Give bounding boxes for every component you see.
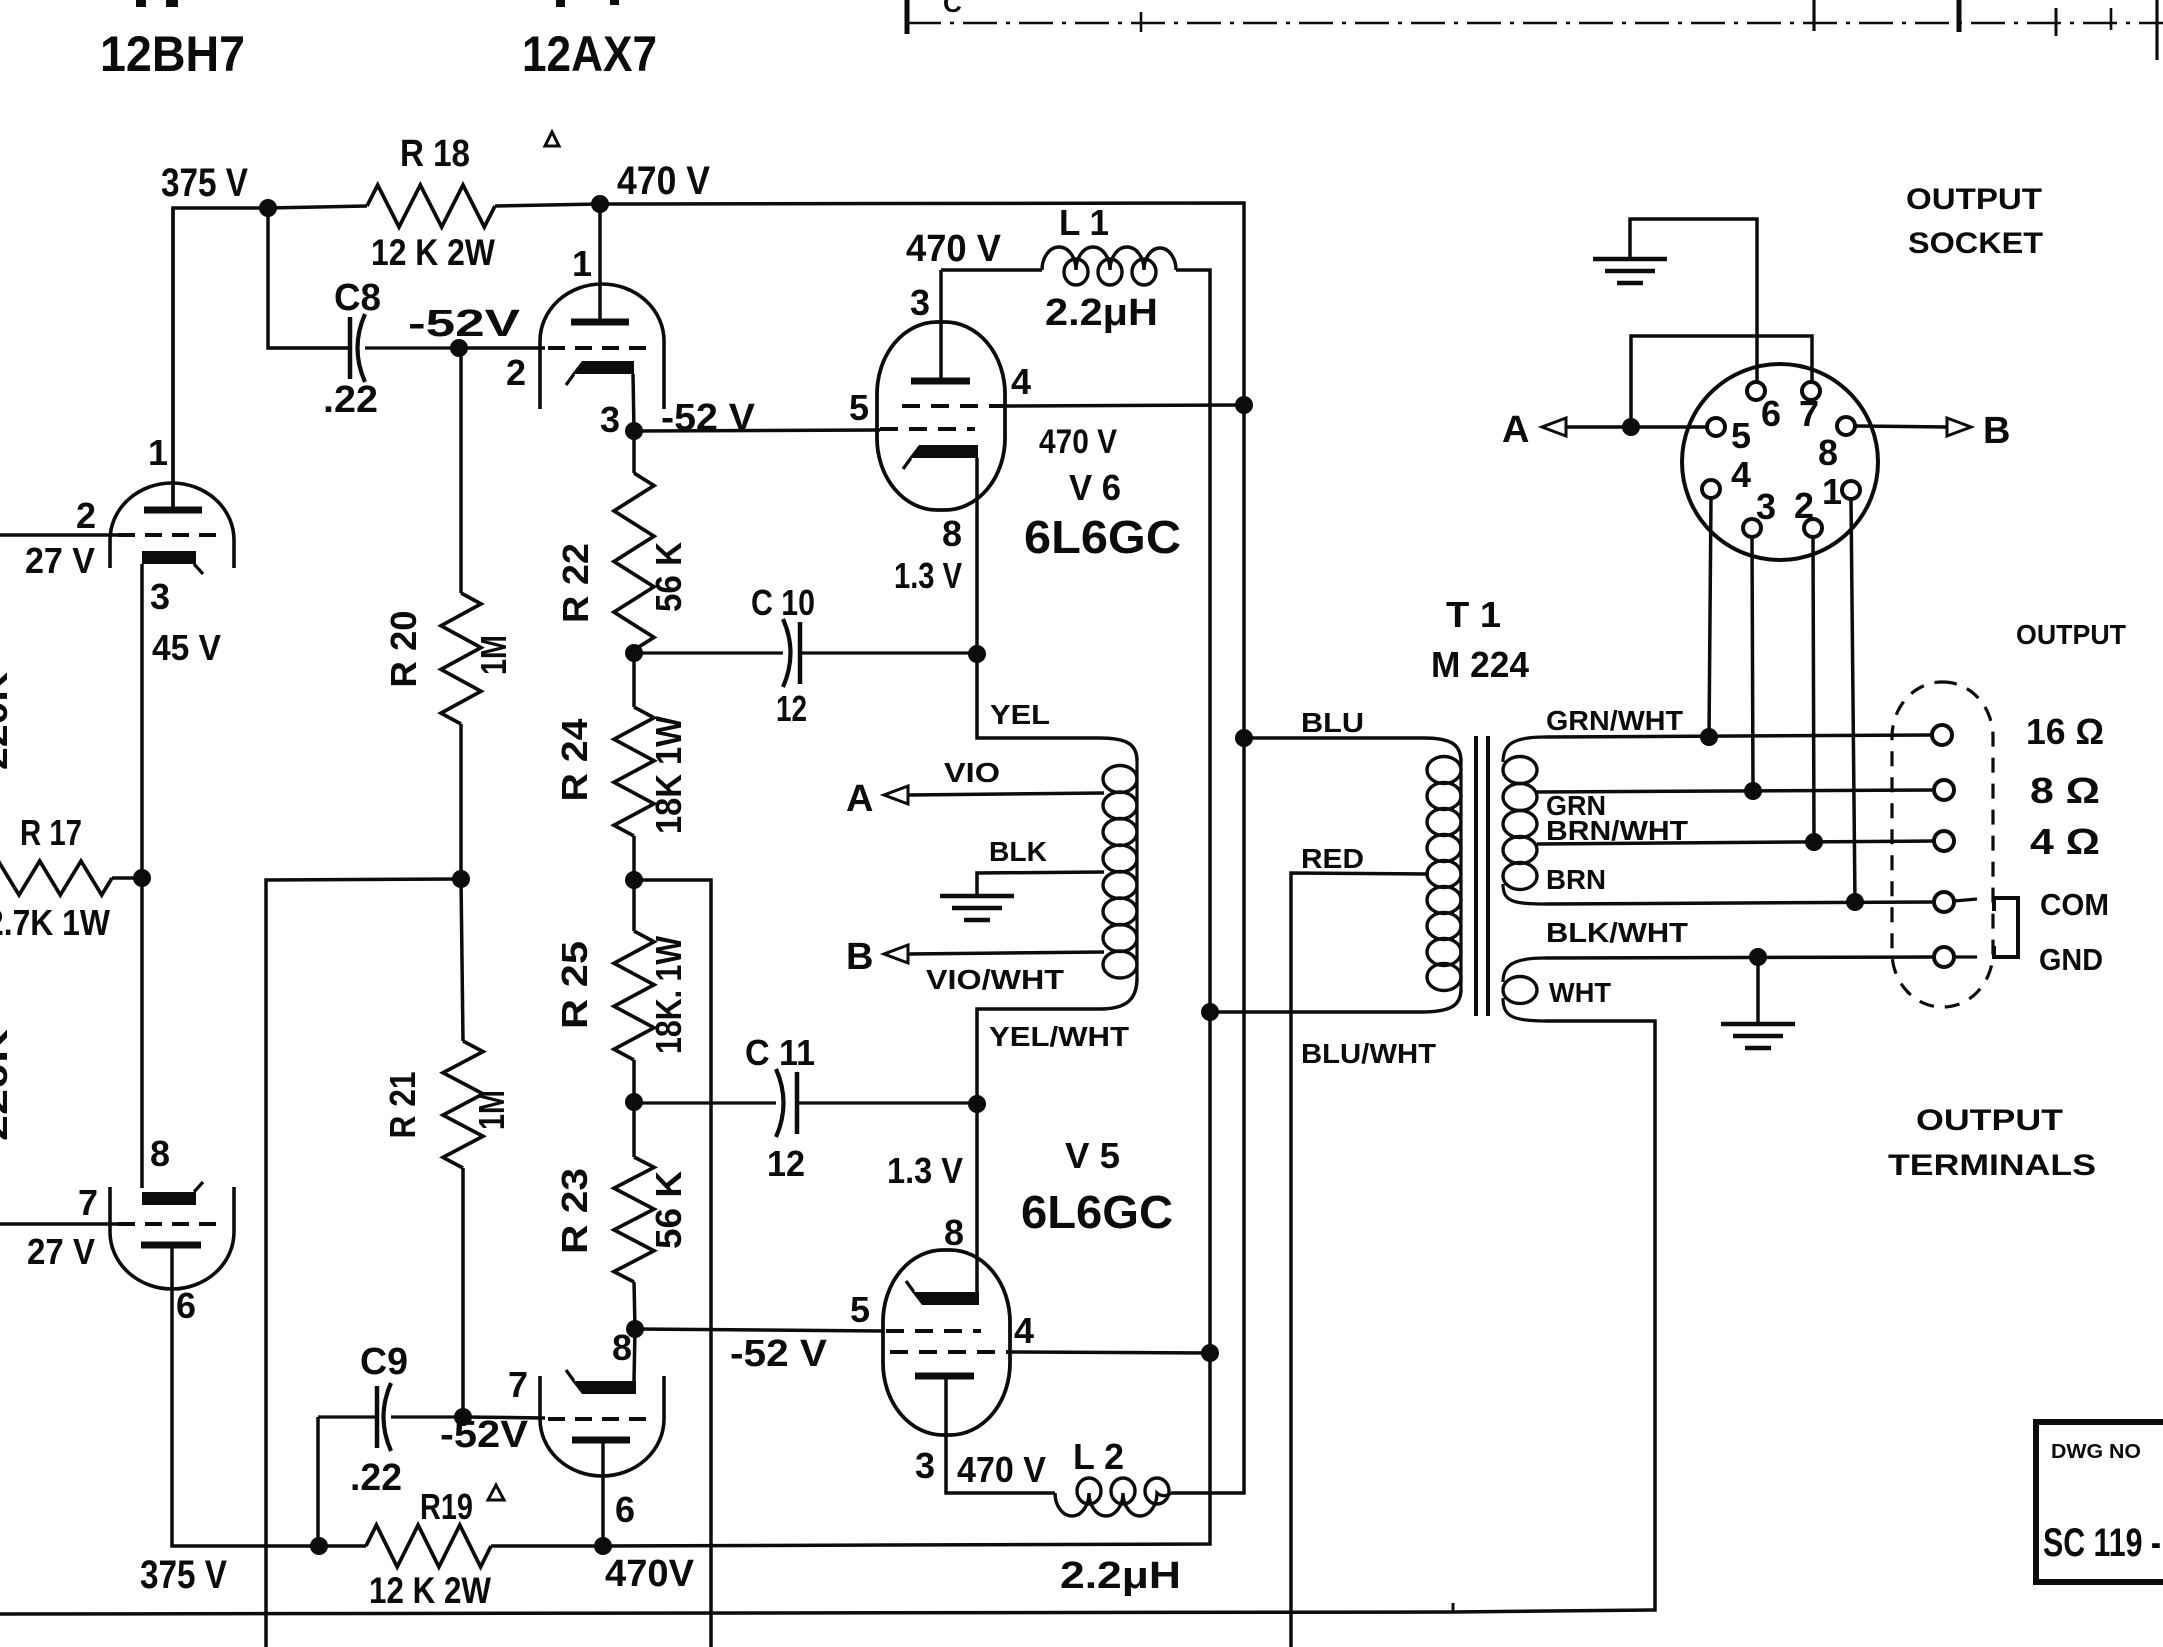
svg-text:OUTPUT: OUTPUT xyxy=(2016,619,2126,650)
wire C9 left corner xyxy=(316,1417,320,1546)
svg-text:R 21: R 21 xyxy=(382,1072,423,1139)
svg-text:3: 3 xyxy=(150,576,170,617)
svg-text:C8: C8 xyxy=(334,277,381,319)
svg-text:.22: .22 xyxy=(323,379,378,421)
node R20 R21 junction xyxy=(452,870,470,888)
svg-text:27 V: 27 V xyxy=(25,540,95,581)
svg-text:2.7K 1W: 2.7K 1W xyxy=(0,902,110,943)
svg-text:8: 8 xyxy=(612,1327,632,1368)
svg-text:R19: R19 xyxy=(420,1486,473,1527)
svg-text:8: 8 xyxy=(1818,432,1838,473)
node BLK/WHT ground junction xyxy=(1749,948,1767,966)
svg-text:5: 5 xyxy=(850,1289,870,1330)
svg-text:220K: 220K xyxy=(0,672,15,770)
svg-text:3: 3 xyxy=(915,1445,935,1486)
svg-text:VIO: VIO xyxy=(944,757,1000,788)
wire rail tick xyxy=(1452,1603,1455,1613)
wire R20 to -52V junction xyxy=(459,724,463,879)
svg-text:RED: RED xyxy=(1301,843,1364,874)
svg-text:BRN: BRN xyxy=(1546,864,1606,895)
svg-text:2.2μH: 2.2μH xyxy=(1060,1555,1181,1597)
svg-text:A: A xyxy=(1502,409,1530,451)
svg-text:OUTPUT: OUTPUT xyxy=(1916,1104,2063,1137)
terminal GND stub xyxy=(1954,955,1977,958)
transformer T1 core xyxy=(1474,736,1478,1016)
wire V6 screen to 470V riser xyxy=(1003,405,1244,406)
svg-text:5: 5 xyxy=(849,387,869,428)
svg-text:470V: 470V xyxy=(605,1553,695,1595)
node 470V junction xyxy=(591,195,609,213)
node R19 right junction xyxy=(594,1537,612,1555)
svg-text:12: 12 xyxy=(767,1143,805,1184)
wire VIO with arrow A xyxy=(908,793,1104,795)
tube V5 cathode xyxy=(912,1292,979,1305)
wire BRN to COM xyxy=(1545,902,1934,904)
svg-text:C: C xyxy=(943,0,963,18)
tube V5 plate lead xyxy=(946,1377,1055,1493)
tube V6 screen grid (dashed) xyxy=(902,404,1003,408)
wire -52V junction to right descent xyxy=(634,880,711,1647)
title block vertical rule right xyxy=(1957,0,1962,32)
node COM junction xyxy=(1846,893,1864,911)
svg-text:12AX7: 12AX7 xyxy=(522,26,657,82)
wire R24 to -52V junction xyxy=(632,836,636,880)
socket pin 3 xyxy=(1743,519,1761,537)
resistor R20 xyxy=(441,593,481,724)
title block edge tick 3 xyxy=(2110,8,2113,30)
wire -52V feed corner xyxy=(266,879,461,1647)
svg-text:R 17: R 17 xyxy=(20,812,82,853)
svg-text:16 Ω: 16 Ω xyxy=(2026,711,2104,752)
node V6 screen junction xyxy=(1235,396,1253,414)
title block edge tick 2 xyxy=(2055,8,2058,36)
svg-text:3: 3 xyxy=(600,399,620,440)
transformer T1 secondary upper xyxy=(1503,737,1545,762)
capacitor C8 xyxy=(348,317,353,379)
svg-text:8: 8 xyxy=(150,1133,170,1174)
wire R23 to 12AX7b junction xyxy=(634,1282,635,1329)
tube V5 cathode lead xyxy=(975,1104,979,1292)
svg-text:BLU/WHT: BLU/WHT xyxy=(1301,1038,1436,1069)
capacitor C9 xyxy=(375,1386,380,1448)
wire V6 plate to L1 xyxy=(941,268,1042,272)
tube 12BH7a plate xyxy=(144,507,202,514)
svg-text:C 11: C 11 xyxy=(745,1032,815,1073)
svg-text:4: 4 xyxy=(1011,361,1031,402)
node C11 junction left xyxy=(625,1093,643,1111)
terminal COM-GND bracket xyxy=(1994,898,2018,957)
tube 12AX7b envelope xyxy=(540,1376,664,1476)
svg-text:R 25: R 25 xyxy=(554,941,595,1029)
wire R19 to 470V junction xyxy=(491,1544,603,1548)
svg-text:18K 1W: 18K 1W xyxy=(648,716,689,834)
svg-text:-52V: -52V xyxy=(440,1414,529,1456)
socket circle xyxy=(1682,364,1878,560)
svg-text:TERMINALS: TERMINALS xyxy=(1888,1149,2096,1182)
svg-text:BRN/WHT: BRN/WHT xyxy=(1546,815,1688,846)
node 12AX7a cathode junction xyxy=(625,422,643,440)
wire 375V bottom xyxy=(175,1544,319,1548)
node C8 grid junction xyxy=(450,339,468,357)
svg-text:.22: .22 xyxy=(350,1457,402,1499)
tube 12AX7a plate xyxy=(571,319,629,326)
tube V5 envelope xyxy=(883,1250,1010,1435)
ground at BLK/WHT xyxy=(1721,1022,1795,1027)
wire 12BH7b grid from left edge xyxy=(0,1222,118,1226)
svg-text:470 V: 470 V xyxy=(1039,423,1117,461)
svg-text:6: 6 xyxy=(176,1285,196,1326)
svg-text:C9: C9 xyxy=(360,1341,408,1383)
socket pin 8 xyxy=(1837,417,1855,435)
wire GRN to 8 ohm xyxy=(1537,790,1934,792)
svg-text:BLK: BLK xyxy=(989,836,1047,867)
svg-text:R 18: R 18 xyxy=(400,133,470,175)
wire junction to R19 xyxy=(319,1544,366,1548)
wire C8 junction to 12AX7 grid xyxy=(459,346,545,350)
node 4 ohm junction xyxy=(1805,833,1823,851)
tube 12BH7b envelope xyxy=(110,1187,234,1289)
terminal 4 ohm xyxy=(1934,831,1954,851)
wire 470V bottom rail to V5 screen riser xyxy=(603,270,1210,1546)
svg-text:1M: 1M xyxy=(471,1090,512,1130)
socket pin 5 xyxy=(1707,418,1725,436)
wire BRN/WHT to 4 ohm xyxy=(1537,841,1934,844)
node C10 junction left xyxy=(625,644,643,662)
wire R21 to C9 junction xyxy=(461,1168,465,1417)
svg-text:1M: 1M xyxy=(473,635,514,675)
wire BLU to primary xyxy=(1244,738,1461,762)
tube 12BH7b grid (dashed) xyxy=(118,1222,222,1226)
resistor R19 xyxy=(366,1525,491,1567)
tube V6 plate lead xyxy=(939,270,943,378)
wire socket pin4 down xyxy=(1709,498,1711,737)
svg-text:BLU: BLU xyxy=(1301,707,1364,738)
node 16 ohm junction xyxy=(1700,728,1718,746)
wire BLK to ground xyxy=(977,872,1104,896)
tube V6 plate xyxy=(911,378,970,385)
tube 12AX7a cathode lead xyxy=(633,374,634,431)
svg-text:2: 2 xyxy=(1794,485,1814,526)
label R18 triangle xyxy=(545,132,559,146)
socket ground wire xyxy=(1630,219,1757,382)
svg-text:4: 4 xyxy=(1731,454,1751,495)
node A junction xyxy=(1622,418,1640,436)
svg-text:27 V: 27 V xyxy=(27,1231,95,1272)
svg-text:V 5: V 5 xyxy=(1065,1135,1120,1176)
wire junction to R25 xyxy=(632,880,636,931)
svg-text:375 V: 375 V xyxy=(161,161,248,205)
svg-text:18K. 1W: 18K. 1W xyxy=(648,936,689,1054)
wire C9 junction to 12AX7b grid xyxy=(463,1417,545,1418)
wire junction down to C8 xyxy=(268,208,350,348)
tube 12BH7a grid (dashed) xyxy=(118,533,222,537)
svg-text:YEL: YEL xyxy=(990,699,1050,730)
label R19 triangle xyxy=(488,1485,504,1500)
node V6 cathode C10 junction xyxy=(968,645,986,663)
wire R17 to cathode line xyxy=(112,876,142,880)
node 375V junction xyxy=(259,199,277,217)
tube V6 cathode lead xyxy=(975,458,979,654)
tube 12BH7b cathode xyxy=(142,1192,196,1205)
wire YEL/WHT from winding xyxy=(977,978,1137,1104)
tube 12BH7a cathode lead xyxy=(140,564,144,877)
wire 470V rail to right descent xyxy=(600,203,1244,1493)
node V5 screen junction xyxy=(1201,1344,1219,1362)
svg-text:1: 1 xyxy=(1822,471,1842,512)
svg-text:T 1: T 1 xyxy=(1446,594,1501,635)
svg-text:B: B xyxy=(846,936,874,978)
tube 12BH7a plate lead xyxy=(171,208,175,509)
resistor R21 xyxy=(443,1041,483,1168)
svg-text:8: 8 xyxy=(944,1212,964,1253)
title block border (dash-dot divider) xyxy=(907,22,2163,25)
capacitor C10 xyxy=(798,622,803,684)
svg-text:C 10: C 10 xyxy=(751,582,815,623)
wire V5 screen to riser xyxy=(1009,1352,1210,1353)
svg-text:WHT: WHT xyxy=(1549,977,1611,1008)
svg-text:3: 3 xyxy=(1756,486,1776,527)
wire BLK/WHT to GND xyxy=(1545,957,1934,958)
wire 375V corner to junction xyxy=(173,208,268,508)
wire BLU/WHT to primary xyxy=(1210,989,1461,1012)
wire BLK/WHT ground stem xyxy=(1756,957,1760,1024)
socket pin7 bracket wire xyxy=(1631,336,1812,427)
svg-text:V 6: V 6 xyxy=(1069,467,1121,508)
svg-text:B: B xyxy=(1983,410,2011,452)
tube 12BH7b plate lead xyxy=(172,1245,175,1546)
svg-text:6L6GC: 6L6GC xyxy=(1024,511,1181,563)
svg-text:12BH7: 12BH7 xyxy=(100,26,245,82)
capacitor C11 xyxy=(795,1072,800,1134)
svg-text:6: 6 xyxy=(615,1489,635,1530)
wire socket pin1 down xyxy=(1851,499,1855,902)
svg-text:1: 1 xyxy=(148,432,168,473)
terminal 16 ohm xyxy=(1932,725,1952,745)
node V5 cathode C11 junction xyxy=(968,1095,986,1113)
tube 12AX7b grid (dashed) xyxy=(548,1417,652,1421)
tube V6 cathode xyxy=(909,445,978,458)
terminal board outline (dashed) xyxy=(1892,682,1993,1007)
svg-text:56 K: 56 K xyxy=(648,1171,689,1249)
node R24 R25 junction xyxy=(625,871,643,889)
tube 12BH7a cathode xyxy=(142,551,196,564)
svg-text:YEL/WHT: YEL/WHT xyxy=(989,1021,1129,1052)
resistor R18 xyxy=(367,185,495,227)
socket pin 2 xyxy=(1804,519,1822,537)
node R19 left junction xyxy=(310,1537,328,1555)
tube 12BH7b plate xyxy=(141,1242,201,1249)
resistor R24 xyxy=(614,707,654,836)
wire C8 junction down to R20 xyxy=(459,348,463,593)
svg-text:7: 7 xyxy=(1799,393,1819,434)
tube 12AX7a envelope xyxy=(540,284,664,409)
tube 12AX7b cathode xyxy=(572,1381,636,1394)
svg-text:GND: GND xyxy=(2039,942,2103,977)
svg-text:1.3 V: 1.3 V xyxy=(894,555,962,596)
svg-text:12 K 2W: 12 K 2W xyxy=(371,232,495,273)
title block vertical rule mid xyxy=(1812,0,1815,31)
wire WHT return xyxy=(0,1021,1655,1614)
ground at socket xyxy=(1593,257,1667,262)
wire socket pin3 down xyxy=(1752,537,1753,791)
svg-text:3: 3 xyxy=(910,282,930,323)
svg-text:2.2μH: 2.2μH xyxy=(1045,292,1158,334)
wire B with arrow xyxy=(1855,426,1947,427)
svg-text:R 24: R 24 xyxy=(554,719,595,802)
tube 12AX7a plate lead xyxy=(598,204,602,321)
node cathode R17 junction xyxy=(133,869,151,887)
svg-text:1.3 V: 1.3 V xyxy=(887,1150,963,1191)
svg-text:470 V: 470 V xyxy=(617,159,710,203)
svg-text:COM: COM xyxy=(2040,887,2109,922)
wire A with arrow xyxy=(1566,425,1631,429)
winding T1 tertiary xyxy=(1103,766,1137,793)
wire R18 to 470V junction xyxy=(495,204,600,206)
svg-text:12: 12 xyxy=(776,688,807,729)
svg-text:OUTPUT: OUTPUT xyxy=(1906,183,2042,216)
svg-text:L 1: L 1 xyxy=(1059,202,1109,243)
wire GRN/WHT to 16 ohm xyxy=(1545,735,1932,737)
svg-text:-52V: -52V xyxy=(408,303,521,345)
svg-text:8 Ω: 8 Ω xyxy=(2030,770,2100,811)
svg-text:L 2: L 2 xyxy=(1073,1436,1124,1477)
node 12AX7b cathode junction xyxy=(626,1320,644,1338)
svg-text:7: 7 xyxy=(508,1364,528,1405)
resistor R22 xyxy=(614,473,654,650)
resistor R25 xyxy=(614,931,654,1060)
node BLU/WHT junction xyxy=(1201,1003,1219,1021)
inductor L1 xyxy=(1042,247,1176,270)
wire 12BH7a grid from left edge xyxy=(0,533,118,537)
tube 12AX7a grid (dashed) xyxy=(548,346,652,350)
wire socket pin2 down xyxy=(1813,537,1814,842)
wire YEL xyxy=(977,654,1137,761)
tube 12AX7a cathode xyxy=(572,361,634,374)
svg-text:56 K: 56 K xyxy=(648,542,689,612)
svg-text:5: 5 xyxy=(1731,415,1751,456)
svg-text:6L6GC: 6L6GC xyxy=(1021,1186,1173,1238)
title block vertical rule left xyxy=(905,0,910,34)
node C9 grid junction xyxy=(454,1408,472,1426)
tube 12BH7a envelope xyxy=(110,483,234,568)
svg-text:R 22: R 22 xyxy=(555,543,596,623)
terminal COM xyxy=(1934,892,1954,912)
svg-text:M 224: M 224 xyxy=(1431,644,1529,685)
svg-text:R 20: R 20 xyxy=(383,611,424,688)
svg-text:-52 V: -52 V xyxy=(730,1333,828,1375)
tube 12AX7b plate lead xyxy=(601,1441,605,1546)
title block edge tick 1 xyxy=(1140,12,1143,32)
transformer T1 primary winding xyxy=(1427,757,1461,784)
transformer T1 secondary lower xyxy=(1503,958,1545,982)
svg-text:45 V: 45 V xyxy=(152,627,221,668)
drawing number box xyxy=(2036,1422,2163,1582)
svg-text:4: 4 xyxy=(1014,1310,1034,1351)
tube V6 envelope xyxy=(877,322,1005,510)
tube 12BH7b cathode lead xyxy=(140,878,144,1188)
cut-off glyphs top-left xyxy=(136,0,146,7)
svg-text:6: 6 xyxy=(1761,393,1781,434)
svg-text:A: A xyxy=(846,778,874,820)
wire R22 tail xyxy=(632,434,636,473)
svg-text:GRN/WHT: GRN/WHT xyxy=(1546,705,1683,736)
tube 12AX7b plate xyxy=(572,1437,630,1444)
svg-text:R 23: R 23 xyxy=(554,1168,595,1254)
tube V5 screen grid (dashed) xyxy=(890,1350,1009,1354)
resistor R23 xyxy=(614,1157,654,1282)
svg-text:375 V: 375 V xyxy=(140,1553,227,1597)
terminal GND xyxy=(1934,947,1954,967)
svg-text:4 Ω: 4 Ω xyxy=(2030,821,2100,862)
node BLU junction xyxy=(1235,729,1253,747)
socket pin 7 xyxy=(1802,382,1820,400)
svg-text:12 K 2W: 12 K 2W xyxy=(369,1570,491,1611)
tube V6 control grid (dashed) xyxy=(880,427,975,431)
title block corner tick xyxy=(2155,0,2158,60)
ground at BLK xyxy=(940,894,1014,899)
svg-text:DWG NO: DWG NO xyxy=(2051,1441,2141,1463)
svg-text:1: 1 xyxy=(572,243,592,284)
svg-text:SC 119 -: SC 119 - xyxy=(2043,1521,2161,1565)
wire VIO/WHT with arrow B xyxy=(908,952,1104,954)
svg-text:2: 2 xyxy=(506,352,526,393)
svg-text:-52 V: -52 V xyxy=(661,397,756,439)
socket pin 6 xyxy=(1747,382,1765,400)
wire RED center tap xyxy=(1291,873,1429,1647)
wire R25 to C11 junction xyxy=(632,1060,636,1102)
terminal 8 ohm xyxy=(1934,780,1954,800)
wire junction to R18 xyxy=(268,206,367,208)
svg-text:VIO/WHT: VIO/WHT xyxy=(926,964,1064,995)
wire junction to R21 xyxy=(461,879,463,1041)
svg-text:7: 7 xyxy=(78,1182,98,1223)
svg-text:470 V: 470 V xyxy=(957,1449,1046,1490)
svg-text:2: 2 xyxy=(76,495,96,536)
svg-text:BLK/WHT: BLK/WHT xyxy=(1546,917,1688,948)
resistor R17 xyxy=(0,861,112,895)
inductor L2 xyxy=(1055,1493,1171,1516)
svg-text:470 V: 470 V xyxy=(906,228,1002,270)
wire C11 junction to R23 xyxy=(632,1102,636,1157)
terminal COM stub xyxy=(1954,899,1977,901)
svg-text:8: 8 xyxy=(942,513,962,554)
wire cathode junction to V6 grid xyxy=(634,430,880,431)
wire 12AX7b cathode junction to V5 grid xyxy=(635,1329,883,1331)
socket pin 4 xyxy=(1702,480,1720,498)
socket pin 1 xyxy=(1842,481,1860,499)
wire C10 junction to R24 xyxy=(632,653,636,707)
tube V5 plate xyxy=(915,1373,974,1380)
tube 12AX7b cathode lead xyxy=(634,1329,635,1381)
node 8 ohm junction xyxy=(1744,782,1762,800)
svg-text:220K: 220K xyxy=(0,1029,15,1141)
tube V5 control grid (dashed) xyxy=(886,1329,981,1333)
svg-text:SOCKET: SOCKET xyxy=(1908,227,2043,260)
